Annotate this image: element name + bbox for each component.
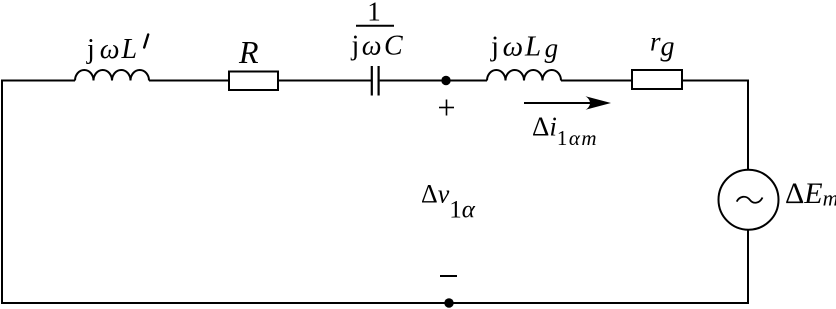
current arrow Δi1αm xyxy=(524,102,596,104)
node A junction dot xyxy=(441,76,450,85)
AC source Em circle xyxy=(719,170,779,230)
svg-text:jωL: jωL xyxy=(86,34,139,65)
resistor R body xyxy=(229,72,278,91)
wire right vertical upper xyxy=(747,80,749,171)
wire between R and C xyxy=(278,80,371,82)
wire between C and node A xyxy=(380,80,487,82)
svg-text:R: R xyxy=(238,34,259,70)
svg-text:jωLg: jωLg xyxy=(490,31,560,64)
fraction bar xyxy=(356,25,394,27)
plus sign of Δv xyxy=(439,107,454,109)
wire top-left segment xyxy=(2,80,75,82)
capacitor C right plate xyxy=(378,66,380,96)
wire left vertical xyxy=(1,80,3,305)
wire between L' and R xyxy=(149,80,229,82)
inductor L' coil xyxy=(75,70,149,81)
resistor rg body xyxy=(632,70,682,89)
svg-text:jωC: jωC xyxy=(351,31,406,62)
capacitor C left plate xyxy=(371,66,373,96)
wire bottom xyxy=(1,302,749,304)
AC source tilde xyxy=(737,197,763,203)
prime of L' xyxy=(144,35,148,48)
wire right vertical lower xyxy=(747,230,749,304)
svg-text:1: 1 xyxy=(367,0,381,27)
minus sign of Δv xyxy=(440,275,457,277)
inductor Lg coil xyxy=(487,70,561,81)
wire between Lg and rg xyxy=(561,80,632,82)
wire between rg and right corner xyxy=(682,80,749,82)
node B junction dot xyxy=(444,298,453,307)
